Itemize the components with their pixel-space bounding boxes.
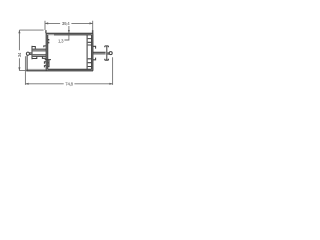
svg-text:74,8: 74,8 [65, 81, 73, 86]
svg-text:34: 34 [17, 52, 22, 57]
svg-text:39,4: 39,4 [62, 21, 70, 26]
svg-text:1,3: 1,3 [58, 38, 64, 43]
